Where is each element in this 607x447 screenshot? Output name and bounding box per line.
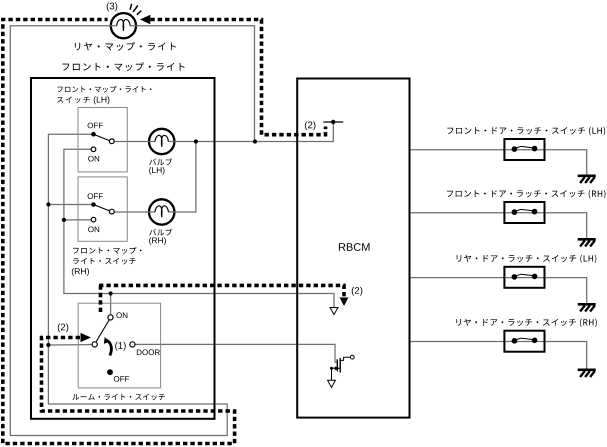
label front map light switch RH line1: [73, 247, 141, 254]
wire: door latch row 1: [409, 150, 586, 175]
front door latch switch (RH) box: [504, 202, 544, 223]
label OFF (room): [114, 376, 129, 382]
front map light unit box: [31, 78, 215, 419]
room light switch box: [78, 303, 160, 388]
ground row 3: [578, 304, 596, 311]
harness arrow (3) at rear map light: [140, 15, 150, 25]
label DOOR: [137, 349, 160, 355]
front map light switch (LH) box: [78, 108, 127, 172]
label (2) at RBCM arrow: [352, 287, 363, 296]
wire: ON bus to RBCM: [64, 149, 334, 315]
RBCM internal: output transistor: [328, 355, 355, 387]
rotation arrow (1): [108, 341, 112, 356]
node: map light feed / rear map light: [253, 139, 257, 143]
label rear door latch switch (LH): [457, 255, 597, 264]
wire: door latch row 3: [409, 278, 586, 304]
ground row 4: [578, 370, 596, 377]
front door latch switch (RH) contacts: [512, 209, 538, 215]
rear door latch switch (RH) box: [504, 331, 544, 352]
label RBCM: [339, 243, 370, 251]
wire: DOOR contact to RBCM transistor gate: [135, 344, 338, 362]
wire: rear map light loop (left/bottom route): [10, 26, 254, 436]
bulb LH: [148, 129, 175, 154]
harness dashed route (2): ON wire into RBCM: [99, 285, 344, 313]
light rays on rear map light: [130, 4, 141, 15]
label bulb RH line1: [149, 229, 172, 236]
label room light switch: [72, 394, 164, 401]
label OFF (switch RH): [88, 193, 103, 199]
label front map light switch LH line2: [57, 97, 90, 104]
node: ON bus / switch RH ON: [62, 218, 66, 222]
label OFF (switch LH): [88, 123, 103, 129]
harness dashed route (2): room switch to rear map light to RBCM: [3, 20, 235, 444]
label ON (room): [116, 312, 127, 318]
rear door latch switch (RH) contacts: [512, 338, 538, 344]
wire: door latch row 4: [409, 342, 586, 369]
bulb RH: [148, 199, 175, 224]
ground row 2: [578, 239, 596, 246]
harness arrow down into RBCM: [340, 298, 349, 307]
label front map light: [62, 62, 184, 71]
front door latch switch (LH) contacts: [512, 146, 538, 152]
rear map light bulb: [110, 13, 137, 38]
wire: bulb LH row to RBCM pin: [112, 123, 333, 212]
room light switch contacts: [92, 315, 135, 375]
label front map light switch RH line2: [73, 258, 136, 265]
wire: OFF bus: [48, 134, 93, 345]
map light switch RH contacts: [91, 202, 114, 222]
rear door latch switch (LH) box: [504, 267, 544, 288]
label ON (switch RH): [88, 227, 99, 233]
harness arrow into room switch: [81, 333, 92, 342]
label rear map light: [75, 42, 176, 51]
label front map light switch RH line3: [72, 268, 89, 276]
map light switch LH contacts: [91, 132, 114, 152]
node: bulb LH / bulb RH outputs: [194, 139, 198, 143]
front map light switch (RH) box: [78, 177, 127, 241]
node: OFF bus / switch RH OFF: [46, 202, 50, 206]
label (2) at room switch: [58, 323, 69, 332]
rear door latch switch (LH) contacts: [512, 274, 538, 280]
label front door latch switch (LH): [447, 127, 605, 136]
label (1): [115, 342, 126, 351]
label bulb LH line1: [149, 158, 172, 165]
RBCM internal: open triangle (to body ground): [330, 308, 338, 315]
label front door latch switch (RH): [447, 190, 606, 199]
label front map light switch LH line2b: [94, 96, 110, 104]
RBCM pin for map light feed: [323, 121, 343, 123]
node: OFF bus / room common / rear light return: [46, 343, 50, 347]
RBCM box: [297, 79, 409, 418]
label bulb LH line2: [149, 167, 164, 175]
label (2) at RBCM pin: [305, 121, 316, 130]
label bulb RH line2: [149, 237, 166, 245]
front door latch switch (LH) box: [504, 139, 544, 160]
label ON (switch LH): [88, 156, 99, 162]
node: ON wire / room ON contact: [109, 291, 113, 295]
wire: door latch row 2: [409, 213, 586, 239]
wire: room switch common: [48, 344, 92, 346]
ground row 1: [578, 176, 596, 183]
label front map light switch LH line1: [57, 86, 151, 93]
label (3): [107, 2, 118, 11]
label rear door latch switch (RH): [456, 319, 596, 328]
